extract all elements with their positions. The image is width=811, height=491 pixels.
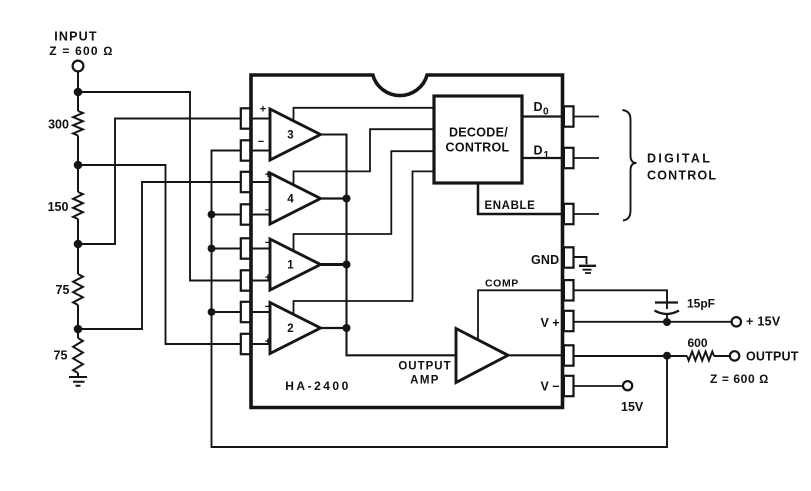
svg-text:HA-2400: HA-2400 bbox=[285, 379, 351, 393]
svg-text:OUTPUT: OUTPUT bbox=[398, 361, 451, 373]
wire tap2 to amp3 + input (pin 1) bbox=[78, 119, 242, 245]
wire output amp to pin bbox=[508, 354, 563, 356]
wire tap1 to amp2 + input (pin 8) bbox=[78, 165, 242, 344]
IC pins right side bbox=[564, 106, 574, 126]
wire amp output bus bbox=[321, 135, 457, 356]
svg-text:4: 4 bbox=[287, 194, 294, 206]
node divider tap junction y=329 bbox=[74, 325, 83, 334]
capacitor C1 15pF bbox=[655, 301, 678, 303]
wire comp external bbox=[574, 290, 668, 309]
IC pins left side bbox=[241, 108, 251, 128]
wire amp4 output bbox=[321, 197, 347, 199]
svg-text:D: D bbox=[534, 144, 543, 158]
svg-text:DIGITAL: DIGITAL bbox=[647, 152, 712, 166]
svg-text:D: D bbox=[534, 100, 543, 114]
wire comp internal bbox=[478, 290, 563, 341]
svg-text:INPUT: INPUT bbox=[54, 30, 98, 44]
wire decode select line to amp 4 bbox=[294, 129, 435, 184]
op-amp U1a channel 3 bbox=[270, 109, 321, 160]
op-amp U2 output amp bbox=[456, 329, 508, 383]
wire V+ rail bbox=[574, 321, 732, 323]
op-amp U1c channel 1 bbox=[270, 239, 321, 290]
svg-text:+: + bbox=[265, 336, 271, 348]
wire output rail bbox=[574, 355, 731, 357]
wire input stub bbox=[77, 71, 79, 92]
wire decode select line to amp 1 bbox=[294, 151, 435, 250]
terminal +15V bbox=[732, 317, 741, 326]
wire D0 stub bbox=[574, 116, 600, 118]
wire feedback stub to pin 5 bbox=[212, 248, 242, 250]
svg-text:600: 600 bbox=[687, 336, 707, 350]
resistor R1 300 bbox=[73, 111, 83, 136]
wire internal input stubs bbox=[250, 119, 270, 345]
ground GND pin bbox=[579, 265, 596, 267]
wire D1 bbox=[522, 157, 563, 159]
brace digital control bbox=[623, 110, 637, 221]
node comp/V+ junction bbox=[663, 318, 671, 326]
resistor R5 600 bbox=[687, 352, 714, 361]
svg-text:+ 15V: + 15V bbox=[746, 315, 781, 329]
node divider tap junction y=92 bbox=[74, 88, 83, 97]
resistor R4 75 bbox=[73, 338, 83, 373]
wire tap3 to amp4 + input (pin 3) bbox=[78, 182, 242, 329]
wire feedback stub to pin 4 bbox=[212, 214, 242, 216]
op-amp U1b channel 4 bbox=[270, 173, 321, 224]
svg-text:75: 75 bbox=[54, 349, 68, 363]
svg-text:3: 3 bbox=[287, 130, 293, 142]
wire D0 bbox=[522, 115, 563, 117]
svg-text:CONTROL: CONTROL bbox=[647, 169, 717, 183]
svg-text:2: 2 bbox=[287, 323, 293, 335]
svg-text:15pF: 15pF bbox=[687, 297, 715, 311]
input terminal bbox=[73, 61, 84, 72]
op-amp U1d channel 2 bbox=[270, 303, 321, 354]
resistor R2 150 bbox=[73, 192, 83, 219]
wire enable stub bbox=[574, 213, 600, 215]
svg-text:AMP: AMP bbox=[410, 375, 440, 387]
svg-text:0: 0 bbox=[543, 107, 549, 118]
svg-text:1: 1 bbox=[287, 260, 294, 272]
node divider tap junction y=244 bbox=[74, 240, 83, 249]
svg-text:DECODE/: DECODE/ bbox=[449, 126, 508, 140]
IC U1 HA-2400 body with index notch bbox=[251, 75, 563, 408]
wire decode select line to amp 3 bbox=[294, 108, 435, 121]
terminal -15V bbox=[623, 381, 632, 390]
wire ENABLE bbox=[478, 183, 563, 214]
svg-text:V −: V − bbox=[541, 380, 560, 394]
svg-text:15V: 15V bbox=[621, 400, 644, 414]
svg-text:75: 75 bbox=[56, 283, 70, 297]
svg-text:COMP: COMP bbox=[485, 278, 519, 290]
svg-text:300: 300 bbox=[48, 118, 69, 132]
svg-text:−: − bbox=[265, 301, 271, 313]
wire resistor chain verticals bbox=[77, 92, 79, 377]
wire feedback bus to inverting inputs and output bbox=[212, 151, 668, 448]
svg-text:CONTROL: CONTROL bbox=[446, 141, 510, 155]
svg-text:−: − bbox=[258, 136, 264, 148]
wire amp2 output bbox=[321, 327, 347, 329]
svg-text:−: − bbox=[265, 237, 271, 249]
wire D1 stub bbox=[574, 157, 600, 159]
svg-text:Z = 600 Ω: Z = 600 Ω bbox=[49, 44, 113, 58]
node output/feedback junction bbox=[663, 352, 671, 360]
wire decode select line to amp 2 bbox=[294, 171, 435, 313]
svg-text:+: + bbox=[265, 169, 271, 181]
svg-text:OUTPUT: OUTPUT bbox=[746, 350, 799, 364]
svg-text:ENABLE: ENABLE bbox=[485, 200, 536, 212]
resistor R3 75 bbox=[73, 274, 83, 305]
svg-text:150: 150 bbox=[48, 200, 69, 214]
svg-text:V +: V + bbox=[541, 316, 560, 330]
svg-text:+: + bbox=[265, 272, 271, 284]
svg-text:−: − bbox=[265, 205, 271, 217]
svg-text:Z = 600 Ω: Z = 600 Ω bbox=[710, 372, 769, 386]
svg-text:GND: GND bbox=[531, 253, 559, 267]
wire amp1 output bbox=[321, 263, 347, 266]
ground input divider bbox=[69, 377, 87, 386]
decode/control block bbox=[434, 96, 522, 183]
wire tap0 to amp1 + input (pin 6) bbox=[78, 92, 242, 281]
terminal OUTPUT bbox=[730, 351, 739, 360]
wire V- stub bbox=[574, 385, 624, 387]
wire feedback stub to pin 7 bbox=[212, 311, 242, 313]
svg-text:+: + bbox=[260, 104, 266, 116]
svg-text:1: 1 bbox=[544, 150, 550, 161]
node divider tap junction y=165 bbox=[74, 161, 83, 170]
